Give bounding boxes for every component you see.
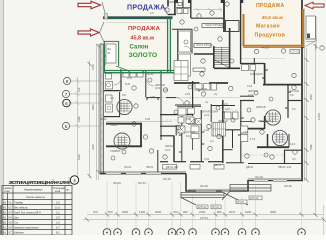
bubble leader lines (70, 80, 100, 82)
door label boxes bottom band (163, 165, 177, 170)
washer row center (195, 84, 202, 91)
svg-text:ОК-01: ОК-01 (284, 184, 292, 188)
scan left edge shading (0, 0, 3, 235)
top bath fixtures (177, 9, 182, 14)
right dim chains (306, 48, 308, 180)
corridor bottom-left verticals (157, 150, 159, 172)
svg-text:10,2: 10,2 (186, 134, 192, 138)
axis line left (77, 77, 79, 178)
corridor dashes (161, 97, 283, 155)
svg-text:2,9: 2,9 (56, 216, 60, 220)
stairs right wall (229, 28, 231, 68)
svg-text:ОК-02: ОК-02 (255, 175, 263, 179)
svg-text:870: 870 (108, 210, 113, 214)
storefront top wall (teal) (103, 17, 173, 19)
svg-text:760: 760 (173, 210, 178, 214)
svg-text:ПВ-01 4,16: ПВ-01 4,16 (278, 165, 292, 169)
svg-text:ДВ-01 МВ: ДВ-01 МВ (166, 165, 178, 169)
svg-text:02: 02 (9, 206, 12, 210)
svg-text:А1: А1 (3, 206, 7, 210)
svg-text:ПРОДАЖА: ПРОДАЖА (256, 3, 284, 9)
kitchenette right of salon (179, 31, 191, 52)
svg-text:ЖИЛАЯ 17,6: ЖИЛАЯ 17,6 (258, 119, 274, 123)
svg-text:17,8: 17,8 (250, 137, 256, 141)
svg-text:2,9: 2,9 (224, 102, 228, 106)
axis bubble 6 (63, 99, 71, 107)
svg-text:4,05: 4,05 (204, 157, 210, 161)
shop warm tint (245, 0, 301, 45)
svg-text:А1: А1 (3, 226, 7, 230)
svg-text:ПВ-01: ПВ-01 (146, 165, 154, 169)
axis bubble 7 (62, 90, 69, 97)
axis bubble 4 (above table) (70, 176, 78, 184)
svg-text:ЖИЛАЯ: ЖИЛАЯ (165, 144, 175, 148)
svg-text:СП-01: СП-01 (292, 50, 300, 54)
svg-text:ЭКСПЛИКАЦИЯ ПОМЕЩЕНИЙ НА 1ЭТАЖ: ЭКСПЛИКАЦИЯ ПОМЕЩЕНИЙ НА 1ЭТАЖ (9, 180, 71, 185)
top edge wall stubs (175, 0, 178, 3)
right flat bath fixtures (225, 112, 232, 119)
exterior stair right (306, 16, 315, 39)
bottom dim chain (83, 219, 324, 221)
central bath fixtures (178, 108, 186, 115)
svg-text:Зал: Зал (14, 216, 19, 220)
WC fixtures (106, 73, 112, 79)
svg-text:07: 07 (9, 231, 12, 235)
window labels below bottom wall (113, 175, 292, 188)
svg-text:2500: 2500 (155, 210, 162, 214)
svg-text:11000: 11000 (317, 112, 321, 120)
svg-text:40,6 кв.м: 40,6 кв.м (262, 15, 284, 21)
big kitchen unit flat1 (174, 61, 188, 81)
svg-text:ОК-01: ОК-01 (113, 181, 121, 185)
svg-text:Продуктов: Продуктов (255, 32, 286, 38)
svg-text:860: 860 (217, 210, 222, 214)
svg-text:Комната персонала: Комната персонала (14, 226, 39, 230)
shop side box (290, 49, 300, 53)
svg-text:3200: 3200 (91, 144, 95, 150)
svg-text:ПРОДАЖА: ПРОДАЖА (128, 26, 161, 32)
svg-text:05: 05 (9, 221, 12, 225)
center corridor verticals (181, 116, 183, 162)
svg-text:А1: А1 (3, 201, 7, 205)
svg-text:ОК-01: ОК-01 (124, 165, 132, 169)
svg-text:2,97: 2,97 (243, 130, 249, 134)
svg-text:м.кв: м.кв (55, 190, 61, 193)
svg-text:1670: 1670 (229, 210, 236, 214)
svg-text:16,9: 16,9 (155, 86, 161, 90)
svg-text:ОК-03: ОК-03 (163, 177, 171, 181)
svg-text:Наименование: Наименование (24, 188, 43, 192)
svg-text:ЛН-01: ЛН-01 (212, 206, 220, 209)
right small flat walls (223, 129, 241, 131)
svg-text:10,0: 10,0 (55, 206, 61, 210)
WC2 fixtures (106, 95, 113, 102)
svg-text:пр.: пр. (66, 189, 70, 192)
red arrow 2 (left, points right) (78, 29, 99, 36)
svg-text:9,6: 9,6 (290, 93, 294, 97)
svg-text:С/у: С/у (14, 221, 19, 225)
svg-text:КУХНЯ: КУХНЯ (290, 89, 299, 93)
entrance walls right (240, 63, 264, 65)
stamp room walls left (106, 123, 142, 125)
svg-text:5,7: 5,7 (56, 226, 60, 230)
svg-text:Тамбур: Тамбур (14, 201, 24, 205)
red arrow 1 (top-left, points right) (78, 1, 101, 9)
svg-text:04: 04 (9, 216, 12, 220)
salon right wall (green) (167, 18, 169, 72)
left exterior wall (hatched) (100, 44, 104, 174)
svg-text:ОК-01: ОК-01 (138, 181, 146, 185)
svg-text:2090: 2090 (122, 210, 129, 214)
right flat walls (240, 128, 265, 130)
step down wall (186, 174, 303, 192)
svg-text:990: 990 (183, 210, 188, 214)
svg-text:Кабинет: Кабинет (14, 231, 25, 235)
svg-text:А1: А1 (3, 216, 7, 220)
shop left wall (240, 0, 242, 64)
sales window label box (202, 24, 223, 28)
svg-text:ЛН-01: ЛН-01 (237, 201, 245, 204)
svg-text:06: 06 (9, 226, 12, 230)
svg-text:2630: 2630 (309, 94, 313, 100)
shop inner room (226, 21, 240, 32)
svg-text:4,23: 4,23 (204, 113, 210, 117)
svg-text:1,9: 1,9 (210, 139, 214, 143)
dim ticks bottom (85, 44, 326, 222)
axis bubble 8 (63, 77, 70, 84)
svg-text:5380: 5380 (309, 144, 313, 150)
right exterior wall (301, 0, 303, 181)
svg-text:А1: А1 (3, 231, 7, 235)
svg-text:ЛЛ-01 2ЛЛ-02: ЛЛ-01 2ЛЛ-02 (196, 43, 213, 47)
top-left room walls (174, 0, 176, 15)
svg-text:5,96: 5,96 (145, 117, 151, 121)
dim numbers bottom (93, 210, 277, 220)
svg-text:4,28: 4,28 (204, 128, 210, 132)
WC room left (120, 69, 122, 91)
left tiny rotated dims (77, 64, 321, 160)
svg-text:5,26: 5,26 (125, 82, 131, 86)
svg-text:ПН-01: ПН-01 (110, 123, 118, 127)
door swing at entry (100, 2, 106, 44)
svg-text:А1: А1 (3, 211, 7, 215)
svg-text:4,26: 4,26 (163, 88, 169, 92)
wall y54 left of stairs (194, 53, 214, 55)
central bath cluster walls (175, 104, 201, 106)
svg-text:пом.: пом. (5, 190, 11, 193)
stairs left wall (213, 46, 215, 68)
svg-text:4,06: 4,06 (186, 117, 192, 121)
svg-text:2,4: 2,4 (110, 96, 114, 100)
svg-text:ЖИЛАЯ: ЖИЛАЯ (256, 105, 266, 109)
flat wall under kitchen (174, 82, 200, 84)
svg-text:2ЛН-02: 2ЛН-02 (250, 197, 259, 200)
wall y68 under stairs (214, 67, 240, 69)
svg-text:2300: 2300 (199, 210, 206, 214)
svg-text:3,2: 3,2 (292, 157, 296, 161)
svg-text:6,07: 6,07 (225, 107, 231, 111)
svg-text:Салон красоты: Салон красоты (26, 195, 45, 199)
svg-text:06-01: 06-01 (100, 117, 107, 121)
svg-text:7,65: 7,65 (150, 95, 156, 99)
svg-text:Салон: Салон (130, 44, 149, 50)
svg-text:1300: 1300 (245, 210, 252, 214)
svg-text:1980: 1980 (77, 116, 81, 122)
salon bottom wall (green) (104, 69, 174, 71)
svg-text:ДВ-02: ДВ-02 (246, 165, 254, 169)
svg-text:14,6: 14,6 (290, 142, 296, 146)
elevator hatch block (212, 123, 226, 137)
svg-text:ВАННАЯ: ВАННАЯ (196, 87, 207, 91)
svg-text:13,9: 13,9 (247, 84, 253, 88)
svg-text:ЖИЛАЯ: ЖИЛАЯ (218, 119, 228, 123)
svg-text:2,62: 2,62 (185, 92, 191, 96)
svg-text:Магазин: Магазин (256, 23, 280, 29)
svg-text:13770: 13770 (200, 216, 208, 220)
svg-text:2,6: 2,6 (56, 201, 60, 205)
svg-text:6100: 6100 (77, 154, 81, 160)
svg-text:ВН: ВН (108, 47, 112, 51)
washers mid (189, 119, 195, 125)
inner lines of kitchen unit (107, 16, 318, 136)
svg-text:ПН: ПН (122, 93, 126, 97)
svg-text:4,23: 4,23 (248, 93, 254, 97)
svg-text:2,10: 2,10 (127, 76, 133, 80)
svg-text:Клуб быт.помещ.МГН: Клуб быт.помещ.МГН (14, 211, 41, 215)
red arrow 3 (top-right, points left) (305, 2, 324, 9)
right flat fixtures top (242, 65, 249, 71)
corridor near salon (145, 71, 147, 97)
svg-text:ЖИЛАЯ КОМН: ЖИЛАЯ КОМН (200, 110, 218, 114)
shaft heater (106, 44, 116, 63)
svg-text:ДВ-01: ДВ-01 (214, 163, 222, 167)
svg-text:ЗОЛОТО: ЗОЛОТО (129, 52, 158, 59)
svg-text:3,2: 3,2 (56, 211, 60, 215)
axis verticals from bottom bubbles (106, 182, 108, 228)
svg-text:01: 01 (9, 201, 12, 205)
svg-text:ТАМБУР: ТАМБУР (110, 149, 121, 153)
interior bottom walls row (160, 161, 168, 163)
svg-text:3150: 3150 (91, 64, 95, 70)
svg-text:1,6: 1,6 (56, 221, 60, 225)
svg-text:8,1: 8,1 (56, 231, 60, 235)
svg-text:КОРИДОР: КОРИДОР (250, 72, 263, 76)
svg-text:2,9: 2,9 (150, 11, 154, 15)
svg-text:4810: 4810 (91, 104, 95, 110)
bottom exterior wall left section (windows) (100, 172, 186, 175)
upper bath walls (182, 0, 184, 8)
svg-text:Вестибюль: Вестибюль (14, 206, 28, 210)
svg-text:12,9: 12,9 (165, 148, 171, 152)
svg-text:910: 910 (77, 87, 81, 92)
svg-text:ЖИЛАЯ: ЖИЛАЯ (248, 89, 258, 93)
svg-text:45,8 кв.м: 45,8 кв.м (131, 35, 155, 41)
svg-text:ОКНО ПРОДАЖ: ОКНО ПРОДАЖ (205, 23, 225, 27)
scan bottom-left dark edge (0, 205, 3, 235)
svg-text:670: 670 (93, 210, 98, 214)
svg-text:А1: А1 (3, 221, 7, 225)
svg-text:5,2: 5,2 (292, 107, 296, 111)
salon warm tint (105, 19, 167, 70)
svg-text:2ЛН-02: 2ЛН-02 (198, 206, 207, 209)
svg-text:КУХНЯ: КУХНЯ (186, 130, 195, 134)
stairs treads (215, 47, 230, 68)
core wall x224 (223, 0, 225, 32)
salon left shaft walls (green) (103, 41, 105, 72)
svg-text:4660: 4660 (270, 210, 277, 214)
axis bubble 5 (62, 122, 69, 129)
svg-text:1300: 1300 (139, 210, 146, 214)
corridor wall y18 (191, 17, 223, 19)
svg-text:03: 03 (9, 211, 12, 215)
cabinets below salon (123, 73, 129, 78)
left dim chain (98, 44, 100, 180)
door jamb ticks (104, 56, 291, 152)
svg-text:ОК-03: ОК-03 (200, 184, 208, 188)
svg-text:ПРОДАЖА: ПРОДАЖА (127, 5, 165, 12)
